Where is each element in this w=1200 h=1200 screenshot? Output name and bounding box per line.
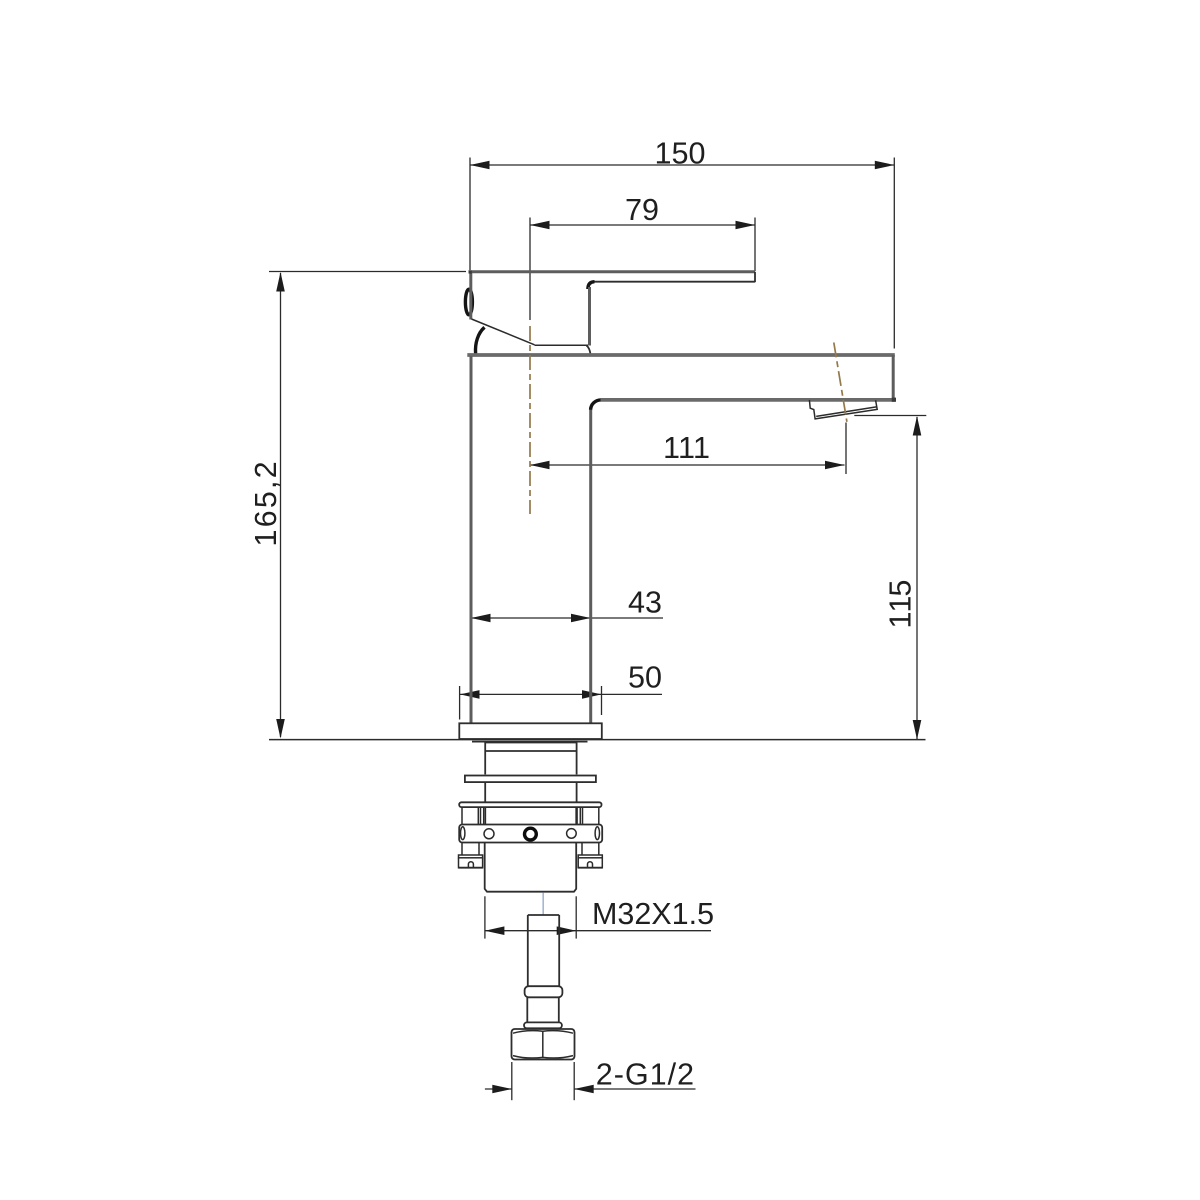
aerator inner line: [816, 407, 876, 417]
handle base right corner curve: [587, 345, 591, 353]
tilted centerline at spout end: [834, 343, 847, 422]
band hole far right: [595, 827, 599, 840]
hex nut body: [512, 1029, 575, 1060]
body right edge: [589, 409, 592, 723]
pipe ring collar: [525, 986, 563, 997]
band hole left: [484, 829, 494, 839]
dimension 2-G1/2 (inlet threads): [485, 1062, 696, 1100]
faucet handle lever top: [469, 270, 756, 273]
handle base left fillet arc: [475, 327, 484, 353]
band center hole (bold): [525, 828, 537, 840]
base plate: [459, 723, 602, 739]
handle lever right end: [754, 272, 756, 282]
dimension 79 (handle length): [530, 199, 755, 320]
spout corner junction dot: [892, 398, 896, 402]
handle neck corner arc: [588, 282, 595, 289]
spout inner corner arc: [591, 400, 601, 410]
left stud foot: [459, 855, 483, 868]
handle base bottom line: [535, 344, 589, 346]
dimension 115 (spout height, right): [854, 416, 926, 740]
handle left edge: [469, 273, 472, 320]
handle corner junction dot: [469, 270, 472, 273]
clamp band: [459, 825, 602, 843]
hex nut top chamfer arcs: [513, 1031, 573, 1034]
right stud foot: [578, 855, 602, 868]
spout underside: [601, 398, 895, 402]
supply pipe lower: [527, 997, 559, 1022]
shank upper section: [485, 742, 576, 774]
spout right end: [892, 355, 895, 401]
band hole right: [567, 829, 577, 839]
band hole far left: [461, 827, 465, 840]
dimension 111 (spout reach): [530, 423, 846, 475]
bracket top bar: [459, 802, 601, 807]
dimension 50 (base width): [460, 666, 662, 719]
dimension 150 (top overall width): [470, 142, 894, 348]
shank mid section: [485, 783, 576, 803]
aerator nozzle outline: [809, 400, 877, 419]
dimension 43 (body width): [471, 591, 663, 622]
supply pipe upper: [528, 915, 559, 986]
hex nut bottom chamfer arcs: [513, 1056, 573, 1058]
vertical centerline of body: [529, 326, 531, 514]
counter mounting surface line: [269, 739, 926, 741]
body left edge: [470, 356, 473, 723]
handle base slanted front: [472, 319, 535, 345]
gasket under base plate: [472, 741, 588, 743]
faucet body top deck line: [467, 353, 895, 357]
handle neck vertical: [588, 287, 591, 346]
studs lower segments: [462, 842, 599, 855]
cartridge housing lower body: [485, 842, 577, 891]
studs upper segments: [462, 808, 599, 825]
dimension 165,2 (overall height, left): [255, 272, 466, 739]
handle side screw cover ellipse: [465, 289, 472, 315]
handle lever bottom: [595, 281, 756, 283]
flexible hose (blue): [542, 893, 544, 916]
dimension M32X1.5 (thread size): [485, 896, 713, 938]
nut top bead: [524, 1022, 562, 1028]
washer flange: [465, 776, 596, 783]
hex nut facet line: [542, 1031, 544, 1057]
